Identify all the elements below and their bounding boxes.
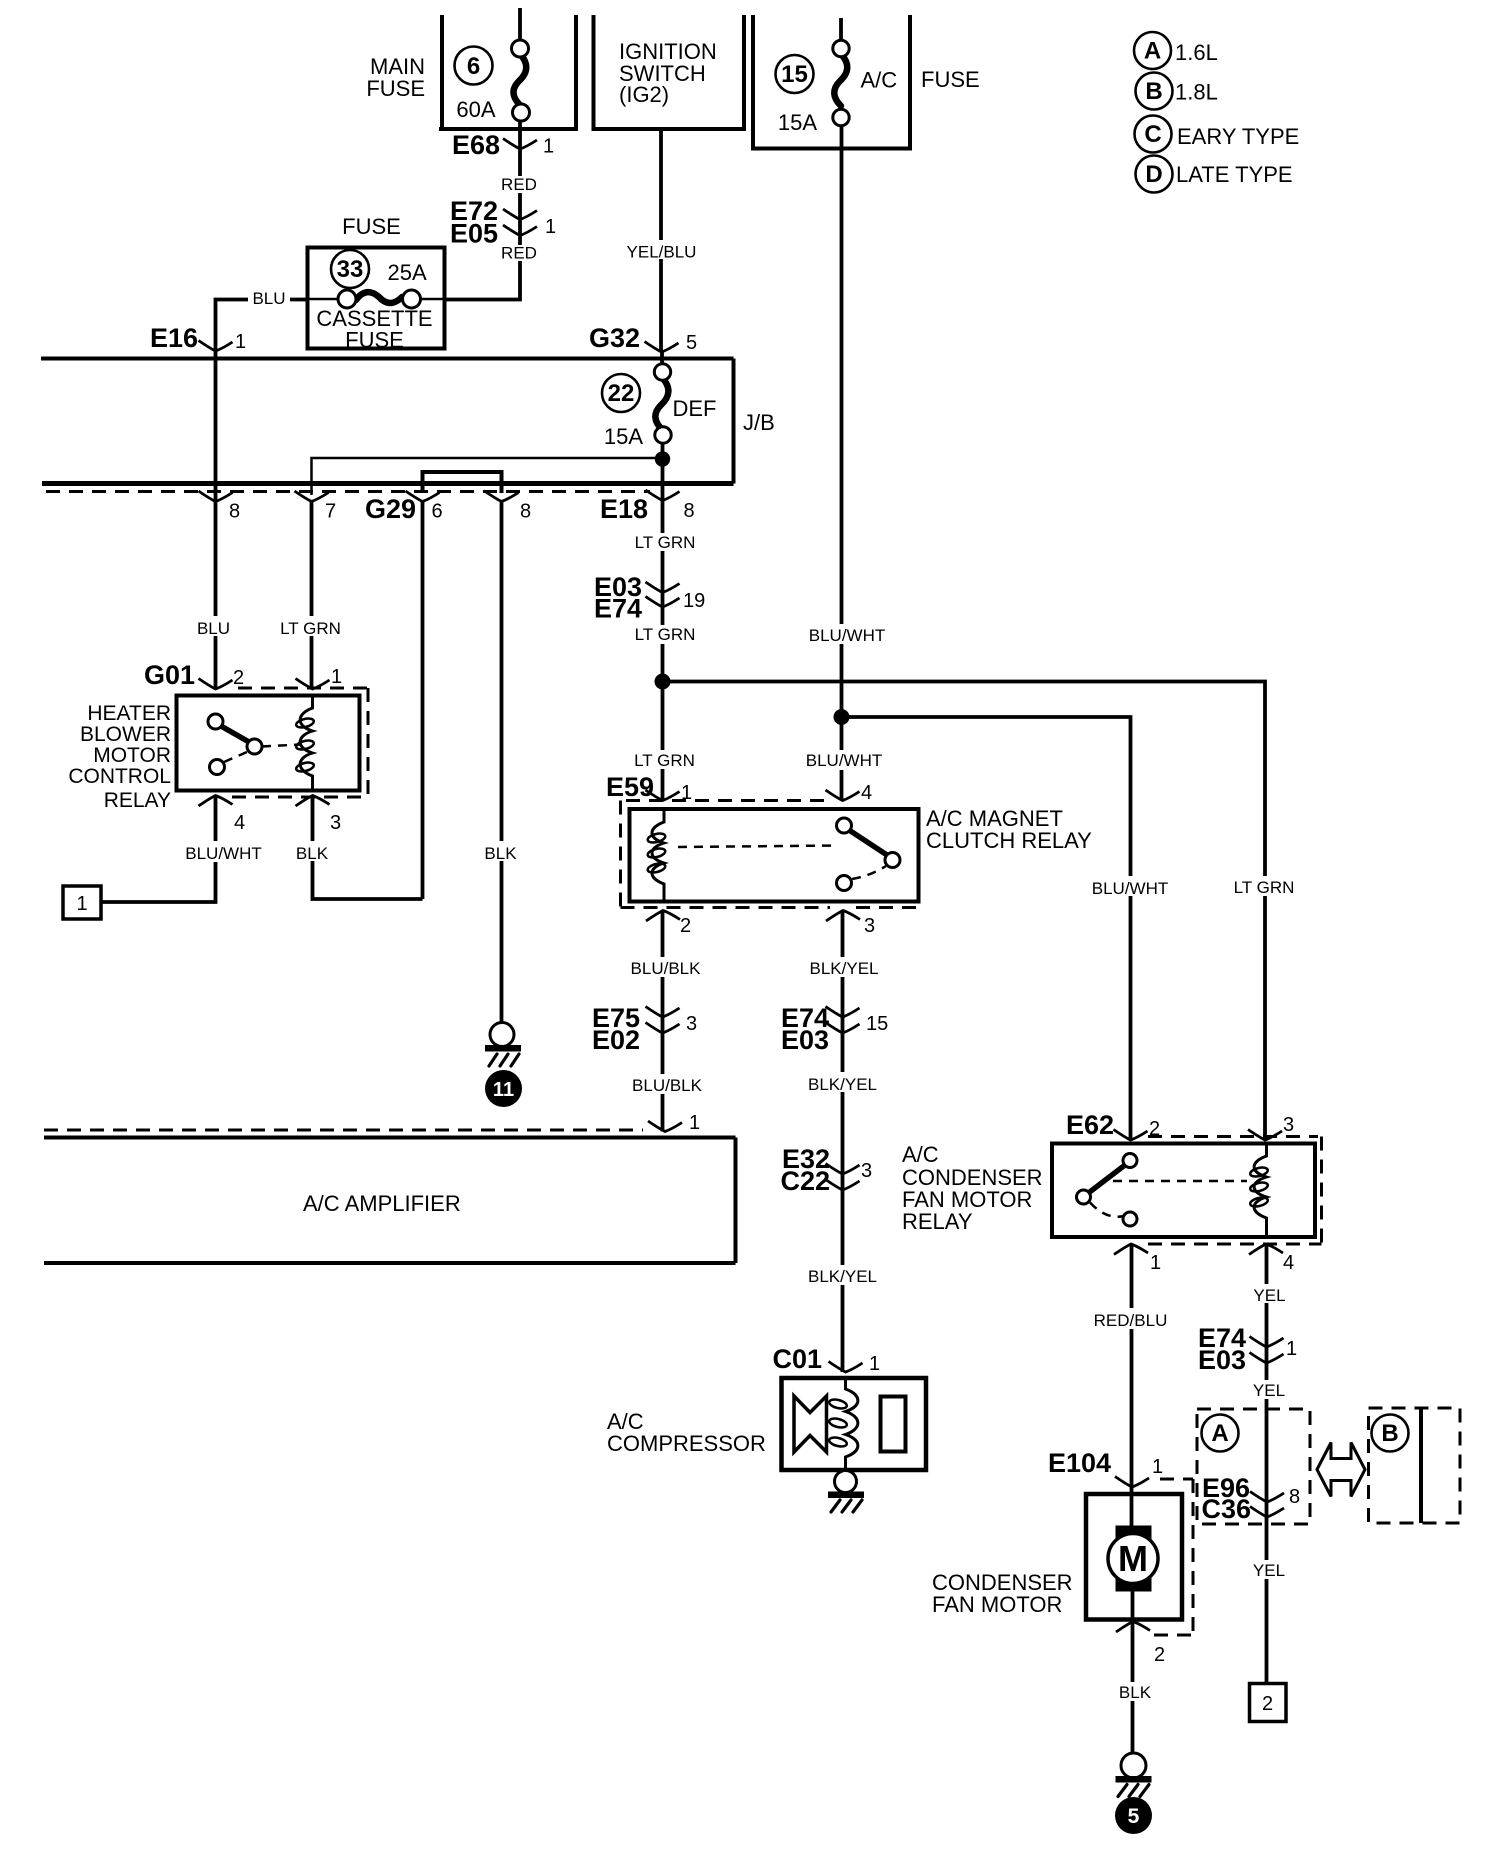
svg-text:11: 11 (493, 1079, 514, 1101)
svg-text:BLU/WHT: BLU/WHT (809, 626, 886, 645)
wire LT GRN junction to right column (663, 682, 1266, 1141)
svg-text:22: 22 (608, 380, 635, 407)
label HEATER BLOWER MOTOR CONTROL RELAY (68, 702, 171, 812)
svg-text:RED: RED (501, 175, 537, 194)
fuse F15 symbol (833, 18, 849, 126)
svg-text:FUSE: FUSE (342, 214, 401, 239)
A/C compressor box (782, 1378, 927, 1470)
svg-text:4: 4 (234, 812, 245, 834)
label BLU/WHT top (805, 624, 889, 645)
connector E62 pin 1 (1114, 1244, 1161, 1274)
svg-text:25A: 25A (388, 260, 427, 285)
legend A 1.6L (1134, 32, 1218, 69)
svg-text:E18: E18 (600, 494, 648, 524)
svg-text:E74: E74 (594, 594, 642, 624)
ground id 5 (1115, 1797, 1152, 1834)
svg-text:FAN MOTOR: FAN MOTOR (932, 1592, 1062, 1617)
svg-text:4: 4 (861, 782, 872, 804)
svg-text:BLK: BLK (484, 844, 517, 863)
label LT GRN (278, 616, 344, 638)
svg-text:BLU/WHT: BLU/WHT (806, 751, 883, 770)
svg-text:LT GRN: LT GRN (280, 619, 341, 638)
connector E16 (150, 323, 246, 353)
label RED/BLU (1093, 1308, 1169, 1330)
svg-text:J/B: J/B (743, 410, 775, 435)
svg-text:RELAY: RELAY (104, 789, 171, 812)
connector E59 pin 2 (646, 911, 691, 938)
svg-text:2: 2 (1262, 1693, 1273, 1715)
svg-text:BLK/YEL: BLK/YEL (810, 959, 879, 978)
compressor ground (828, 1471, 864, 1513)
G01 connector dashed outline (232, 688, 368, 797)
label RED (501, 244, 538, 263)
svg-text:5: 5 (1128, 1805, 1140, 1828)
E104 connector dashed outline (1154, 1479, 1193, 1635)
svg-text:C22: C22 (780, 1166, 830, 1196)
svg-text:60A: 60A (456, 97, 495, 122)
svg-text:15A: 15A (778, 110, 817, 135)
label BLU/BLK (628, 957, 704, 978)
svg-text:A: A (1211, 1420, 1228, 1447)
connector E96 C36 (1201, 1473, 1300, 1524)
variant A box (1197, 1409, 1310, 1524)
compressor coil (828, 1378, 858, 1470)
wire RED/BLU E62 pin 1 to condenser fan motor (1130, 1244, 1134, 1527)
dashed connector line above amplifier (44, 1129, 643, 1132)
svg-text:D: D (1145, 161, 1162, 188)
svg-text:1: 1 (545, 216, 556, 238)
label BLU/BLK lower (630, 1074, 706, 1095)
connector E68 (452, 130, 554, 160)
G01 relay body (177, 696, 360, 791)
svg-text:4: 4 (1283, 1252, 1294, 1274)
connector E62 pin 3 (1248, 1114, 1294, 1140)
svg-text:15A: 15A (604, 424, 643, 449)
svg-text:CLUTCH RELAY: CLUTCH RELAY (926, 828, 1092, 853)
connector G29 pin 7 (295, 491, 337, 523)
svg-text:G01: G01 (144, 660, 195, 690)
svg-text:BLU/WHT: BLU/WHT (1092, 879, 1169, 898)
A/C amplifier box (44, 1138, 736, 1264)
connector E104 (1048, 1448, 1163, 1487)
svg-text:A: A (1144, 38, 1161, 65)
compressor internal rect (881, 1397, 906, 1452)
connector C01 (772, 1344, 880, 1375)
svg-text:1: 1 (331, 666, 342, 688)
terminal box 2 (1250, 1684, 1287, 1722)
connector E104 pin 2 (1116, 1622, 1165, 1667)
connector amplifier pin 1 (648, 1112, 700, 1134)
svg-text:33: 33 (337, 256, 364, 283)
wire J/B internal to G29 pin 7 (312, 458, 663, 495)
condenser fan motor box (1086, 1494, 1182, 1620)
E62 switch (1077, 1154, 1138, 1227)
connector E59 pin 3 (826, 911, 875, 938)
svg-text:YEL: YEL (1253, 1561, 1285, 1580)
E59 coil to switch dashed link (678, 846, 838, 848)
E62 connector dashed outline (1148, 1137, 1322, 1245)
svg-text:EARY TYPE: EARY TYPE (1177, 124, 1299, 149)
junction node LT GRN (655, 674, 671, 690)
svg-text:E104: E104 (1048, 1448, 1111, 1478)
G01 coil (295, 696, 314, 791)
svg-text:1: 1 (235, 331, 246, 353)
svg-text:G32: G32 (589, 323, 640, 353)
svg-text:A/C AMPLIFIER: A/C AMPLIFIER (303, 1191, 461, 1216)
junction node BLU/WHT (834, 709, 850, 725)
label BLU (194, 616, 236, 638)
svg-text:1: 1 (76, 893, 87, 915)
wire BLU/WHT junction to right column (842, 717, 1131, 1140)
dashed connector line under J/B (46, 490, 650, 493)
label LT GRN below E18 (633, 533, 699, 552)
E59 coil (647, 809, 666, 902)
connector E74 E03 right (1198, 1323, 1297, 1375)
svg-text:3: 3 (1283, 1114, 1294, 1136)
E62 relay body (1052, 1144, 1315, 1238)
svg-text:E05: E05 (450, 219, 498, 249)
label YEL above A box (1249, 1380, 1290, 1400)
connector G01 pin 2 (199, 667, 245, 689)
svg-text:YEL: YEL (1253, 1286, 1285, 1305)
E62 switch to coil dashed link (1113, 1180, 1247, 1183)
svg-text:6: 6 (467, 53, 480, 80)
svg-text:LATE TYPE: LATE TYPE (1176, 162, 1293, 187)
relay G01 heater blower motor control relay (144, 660, 195, 690)
label LT GRN right column (1230, 876, 1298, 897)
legend B 1.8L (1136, 73, 1218, 110)
svg-text:19: 19 (683, 590, 705, 612)
junction block J/B (41, 359, 734, 484)
svg-text:1.6L: 1.6L (1175, 40, 1218, 65)
connector E75 E02 (592, 1003, 697, 1055)
svg-text:E02: E02 (592, 1025, 640, 1055)
svg-text:B: B (1145, 78, 1162, 105)
wire BLU/WHT G01 pin 4 to terminal 1 (101, 796, 216, 903)
svg-text:1: 1 (1152, 1456, 1163, 1478)
svg-text:C01: C01 (772, 1344, 822, 1374)
fuse F6 symbol (512, 8, 530, 121)
label LT GRN above E59 (632, 750, 697, 770)
circled 15 (776, 55, 814, 93)
connector G29 pin 8 (485, 491, 532, 523)
svg-text:CONTROL: CONTROL (68, 765, 171, 788)
label MAIN FUSE (366, 54, 425, 101)
label A/C MAGNET CLUTCH RELAY (926, 806, 1092, 853)
wire BLK G01 pin 3 to G29 pin 6 (313, 796, 423, 900)
svg-text:1: 1 (1150, 1252, 1161, 1274)
wire BLU/WHT A/C fuse down to E59 pin 4 (840, 125, 844, 801)
legend D LATE TYPE (1136, 156, 1293, 193)
svg-text:8: 8 (520, 501, 531, 523)
fuse 22 DEF (654, 352, 671, 443)
svg-text:BLU: BLU (197, 619, 230, 638)
circled 6 (455, 47, 493, 85)
connector E16 pin 8 (199, 491, 241, 523)
svg-text:LT GRN: LT GRN (635, 625, 696, 644)
svg-text:1: 1 (869, 1353, 880, 1375)
connector E62 pin 2 (1114, 1118, 1161, 1140)
ignition switch (IG2) box (592, 15, 747, 129)
connector E62 pin 4 (1249, 1244, 1294, 1274)
svg-text:FUSE: FUSE (921, 67, 980, 92)
svg-text:BLOWER: BLOWER (80, 723, 171, 746)
connector E32 C22 (780, 1144, 872, 1196)
svg-text:C: C (1144, 121, 1161, 148)
label BLK (482, 841, 522, 863)
svg-text:DEF: DEF (673, 396, 717, 421)
svg-text:BLK/YEL: BLK/YEL (808, 1267, 877, 1286)
connector G01 pin 4 (199, 796, 246, 835)
label BLU (248, 288, 290, 308)
connector G01 pin 1 (296, 666, 343, 689)
svg-text:YEL/BLU: YEL/BLU (627, 243, 697, 262)
svg-text:3: 3 (686, 1013, 697, 1035)
svg-text:3: 3 (330, 812, 341, 834)
svg-text:G29: G29 (365, 494, 416, 524)
svg-text:3: 3 (861, 1160, 872, 1182)
svg-text:FUSE: FUSE (345, 328, 404, 353)
connector G01 pin 3 (296, 796, 342, 835)
svg-text:M: M (1118, 1538, 1148, 1579)
svg-text:15: 15 (866, 1013, 888, 1035)
svg-text:1.8L: 1.8L (1175, 80, 1218, 105)
jumper G29 pin 6 to pin 8 (423, 472, 502, 493)
svg-text:HEATER: HEATER (87, 702, 171, 725)
svg-text:COMPRESSOR: COMPRESSOR (607, 1431, 766, 1456)
motor M symbol (1108, 1526, 1158, 1592)
svg-text:RELAY: RELAY (902, 1209, 973, 1234)
E59 relay body (630, 809, 919, 902)
wire LT GRN G29 pin7 to G01 pin 1 (310, 502, 314, 690)
svg-text:8: 8 (229, 501, 240, 523)
svg-text:2: 2 (233, 667, 244, 689)
svg-text:BLK: BLK (1119, 1683, 1152, 1702)
svg-text:BLU/BLK: BLU/BLK (632, 1076, 703, 1095)
terminal box 1 (63, 886, 101, 919)
label YEL/BLU (624, 240, 699, 262)
svg-text:6: 6 (432, 501, 443, 523)
svg-text:2: 2 (1154, 1644, 1165, 1666)
ground symbol bottom (1116, 1753, 1152, 1797)
compressor clutch bowtie (794, 1396, 827, 1452)
junction node in J/B (655, 451, 670, 466)
svg-text:A/C: A/C (861, 68, 898, 93)
svg-text:E16: E16 (150, 323, 198, 353)
G01 switch (208, 714, 300, 775)
label BLU/WHT (176, 841, 271, 863)
wire YEL/BLU ignition to G32 (659, 129, 663, 352)
svg-text:8: 8 (684, 500, 695, 522)
label RED (501, 175, 538, 194)
svg-text:15: 15 (781, 61, 808, 88)
connector E74 E03 (781, 1003, 888, 1055)
label CASSETTE FUSE (316, 306, 432, 353)
label BLU/WHT above E59 pin 4 (802, 750, 886, 770)
label YEL below A box (1249, 1560, 1290, 1580)
connector E03 E74 (594, 572, 705, 624)
connector E72 E05 (450, 196, 556, 249)
label BLK/YEL lower (804, 1265, 882, 1286)
E62 coil (1249, 1144, 1268, 1238)
svg-text:A/C: A/C (902, 1142, 939, 1167)
wire RED from main fuse to cassette fuse (445, 121, 521, 300)
svg-text:8: 8 (1289, 1486, 1300, 1508)
circled 33 (331, 250, 369, 288)
svg-text:YEL: YEL (1253, 1381, 1285, 1400)
circled 22 (602, 374, 640, 412)
svg-text:B: B (1381, 1420, 1398, 1447)
svg-text:BLK: BLK (296, 844, 329, 863)
svg-text:7: 7 (325, 501, 336, 523)
E59 connector dashed outline (621, 801, 917, 908)
variant interchange arrow (1317, 1443, 1365, 1497)
svg-text:LT GRN: LT GRN (635, 533, 696, 552)
wire BLK G29 pin8 to ground (500, 502, 504, 1023)
svg-text:FUSE: FUSE (366, 76, 425, 101)
connector G32 (589, 323, 697, 354)
connector E59 pin 4 (826, 782, 873, 804)
svg-text:E03: E03 (781, 1025, 829, 1055)
fuse F33 symbol (308, 290, 445, 308)
svg-text:C36: C36 (1201, 1494, 1251, 1524)
svg-text:BLU: BLU (252, 289, 285, 308)
wire motor to E104 pin 2 and ground (1131, 1592, 1135, 1754)
E59 switch (837, 818, 901, 891)
cassette fuse box (308, 248, 445, 349)
svg-text:E59: E59 (606, 772, 654, 802)
connector G29 pin 6 (365, 491, 443, 524)
svg-text:1: 1 (689, 1112, 700, 1134)
ground id 11 (485, 1070, 522, 1107)
connector E59 pin 1 (646, 782, 693, 804)
svg-text:2: 2 (680, 915, 691, 937)
label BLK (293, 841, 333, 863)
svg-text:BLU/WHT: BLU/WHT (185, 844, 262, 863)
A/C fuse box (751, 15, 912, 149)
label BLK/YEL (805, 957, 883, 978)
wire BLK/YEL E59 pin 3 to C01 (841, 911, 845, 1373)
svg-text:(IG2): (IG2) (619, 82, 669, 107)
legend C EARY TYPE (1135, 116, 1300, 153)
label CONDENSER FAN MOTOR (932, 1570, 1073, 1617)
label A/C COMPRESSOR (607, 1409, 766, 1456)
label A/C CONDENSER FAN MOTOR RELAY (902, 1142, 1043, 1234)
wire BLU cassette fuse to E16/J/B (216, 300, 308, 690)
svg-text:BLK/YEL: BLK/YEL (808, 1075, 877, 1094)
label BLK/YEL mid (804, 1072, 882, 1094)
label YEL (1247, 1284, 1291, 1305)
label BLK (1114, 1682, 1156, 1702)
ground symbol 11 (485, 1023, 521, 1067)
label LT GRN above junction (633, 625, 699, 644)
svg-text:LT GRN: LT GRN (634, 751, 695, 770)
svg-text:E68: E68 (452, 130, 500, 160)
svg-text:E03: E03 (1198, 1345, 1246, 1375)
svg-text:1: 1 (543, 136, 554, 158)
svg-text:RED: RED (501, 244, 537, 263)
connector E18 pin 8 (600, 490, 695, 524)
svg-text:1: 1 (1286, 1338, 1297, 1360)
svg-text:MOTOR: MOTOR (93, 744, 171, 767)
svg-text:BLU/BLK: BLU/BLK (631, 959, 702, 978)
wire BLU/BLK E59 pin 2 to A/C amplifier pin 1 (661, 911, 665, 1132)
label BLU/WHT right column (1088, 876, 1172, 898)
svg-text:3: 3 (864, 915, 875, 937)
variant B box (1369, 1408, 1461, 1523)
svg-text:RED/BLU: RED/BLU (1094, 1311, 1168, 1330)
svg-text:E62: E62 (1066, 1110, 1114, 1140)
main fuse box (439, 15, 578, 129)
wire LT GRN DEF fuse down through E18 (661, 443, 665, 801)
wire G29 pin6 down (421, 502, 425, 900)
svg-text:5: 5 (686, 332, 697, 354)
svg-text:LT GRN: LT GRN (1234, 878, 1295, 897)
wire YEL E62 pin 4 to terminal 2 (1265, 1244, 1269, 1684)
